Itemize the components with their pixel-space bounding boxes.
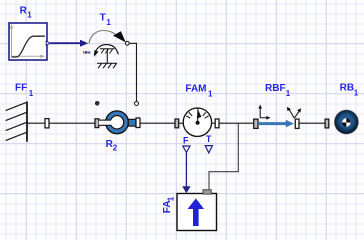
label FA1 (rotated)	[162, 196, 176, 213]
wire flange to R2	[49, 122, 95, 124]
label R1	[20, 6, 33, 20]
wheel R2	[95, 111, 140, 134]
svg-text:1: 1	[106, 18, 111, 27]
label R2	[106, 139, 118, 153]
rigid body RB1	[325, 110, 358, 134]
support plate with hatches	[100, 48, 115, 50]
wire wall to flange	[27, 122, 45, 124]
frame glyph left	[259, 108, 261, 119]
force element RBF1	[254, 105, 302, 129]
svg-text:T: T	[100, 13, 106, 24]
svg-text:F: F	[183, 135, 189, 145]
blue up arrow	[193, 206, 199, 226]
svg-text:1: 1	[354, 89, 359, 98]
output triangle T	[205, 146, 212, 153]
node filled dot above R2 left flange	[95, 101, 100, 106]
stem	[106, 49, 108, 63]
node open circle above R2 right flange	[135, 102, 139, 106]
center of mass symbol	[342, 118, 350, 126]
svg-text:RB: RB	[340, 82, 354, 93]
torque arc	[89, 31, 116, 44]
flange of FF1 (white)	[45, 119, 49, 128]
label FF1	[15, 83, 34, 99]
needle	[197, 108, 199, 122]
fixed support FF1	[6, 102, 27, 142]
label FAM1	[185, 84, 213, 99]
svg-text:1: 1	[29, 89, 34, 98]
signal source R1	[9, 23, 50, 60]
svg-text:1: 1	[208, 90, 213, 99]
output triangle F	[183, 146, 190, 152]
wire R2 to FAM1	[140, 122, 175, 124]
gray input connector on top	[203, 190, 211, 194]
svg-text:T: T	[206, 134, 212, 144]
tiny tau parameter text	[83, 51, 90, 53]
svg-text:FF: FF	[15, 83, 27, 94]
label RB1	[340, 82, 359, 97]
label RBF1	[265, 83, 291, 98]
svg-text:1: 1	[27, 10, 32, 19]
blue force arrow	[258, 122, 286, 125]
force actuator FA1	[177, 190, 217, 231]
support reaction arc	[94, 45, 118, 55]
wire RBF1 to RB1	[299, 122, 325, 124]
wire FAM1 to RBF1	[219, 122, 254, 124]
ground line with hatches	[97, 62, 117, 64]
wire branch to FA1 top connector	[209, 123, 238, 190]
sensor FAM1	[175, 108, 219, 153]
wire F output to FA1	[182, 152, 190, 193]
flange circle of T1	[125, 41, 129, 45]
frame glyph right	[289, 110, 294, 118]
wire signal R1 to T1	[50, 40, 88, 47]
svg-text:1: 1	[166, 196, 175, 201]
wire from T1 flange down	[129, 43, 136, 101]
torque source T1	[83, 31, 129, 69]
svg-text:1: 1	[286, 89, 291, 98]
svg-text:FAM: FAM	[185, 84, 206, 95]
svg-text:2: 2	[113, 144, 118, 153]
svg-text:RBF: RBF	[265, 83, 286, 94]
svg-text:FA: FA	[162, 200, 173, 213]
label T1	[100, 13, 112, 27]
ticks	[189, 112, 192, 116]
